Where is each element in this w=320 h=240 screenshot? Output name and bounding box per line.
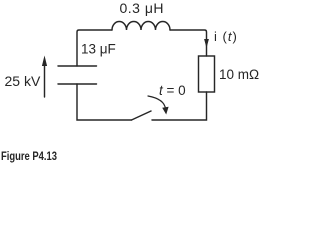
inductor L1 0.3 uH: [112, 22, 170, 31]
svg-text:10 mΩ: 10 mΩ: [219, 67, 259, 82]
resistor R1 10 mOhm (box): [199, 56, 215, 92]
wire right bottom: [152, 92, 207, 120]
voltage arrow 25 kV shaft: [44, 65, 46, 97]
arrowhead 25kV up: [42, 56, 47, 67]
arrowhead i(t) down: [204, 39, 209, 48]
wire top-right: [170, 30, 207, 56]
switch closing arc t=0: [148, 96, 166, 109]
svg-text:t = 0: t = 0: [159, 83, 186, 98]
svg-text:25 kV: 25 kV: [5, 73, 41, 89]
svg-text:13 μF: 13 μF: [81, 42, 116, 57]
wire bottom-left rail: [77, 84, 132, 120]
svg-text:Figure P4.13: Figure P4.13: [1, 149, 57, 163]
arrowhead switch arc: [162, 107, 168, 115]
svg-text:i (t): i (t): [214, 29, 238, 44]
capacitor C1 plate top: [58, 65, 97, 67]
switch blade: [132, 111, 152, 120]
capacitor C1 plate bottom: [58, 83, 97, 85]
wire top-left vertical: [77, 30, 112, 66]
svg-text:0.3 μH: 0.3 μH: [120, 0, 165, 16]
